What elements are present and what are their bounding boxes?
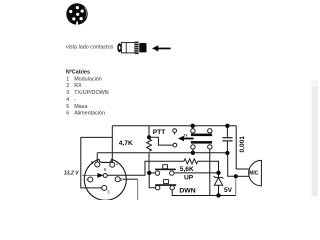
svg-text:RX: RX [74,83,82,89]
svg-text:4: 4 [66,97,69,103]
svg-text:4,7K: 4,7K [119,140,133,147]
svg-text:Masa: Masa [74,104,87,110]
svg-text:UP: UP [184,174,194,181]
svg-text:3: 3 [66,90,69,96]
svg-text:6: 6 [66,111,69,117]
svg-text:2: 2 [66,83,69,89]
svg-text:5: 5 [66,104,69,110]
svg-text:vista lado contactos: vista lado contactos [66,45,114,51]
svg-text:5,6K: 5,6K [180,166,194,173]
svg-text:1: 1 [66,76,69,82]
svg-text:Modulación: Modulación [74,76,102,82]
svg-text:PTT: PTT [153,129,165,136]
svg-text:NºCables: NºCables [66,69,90,75]
svg-text:-: - [74,97,76,103]
svg-text:MIC: MIC [249,171,259,177]
svg-text:5V: 5V [224,187,233,194]
svg-text:DWN: DWN [179,188,195,195]
svg-text:Alimentación: Alimentación [74,111,105,117]
svg-text:13,2 V: 13,2 V [64,171,79,177]
svg-text:0,001: 0,001 [239,136,246,153]
svg-text:Tx: Tx [184,133,188,137]
svg-text:TX/UP/DOWN: TX/UP/DOWN [74,90,109,96]
